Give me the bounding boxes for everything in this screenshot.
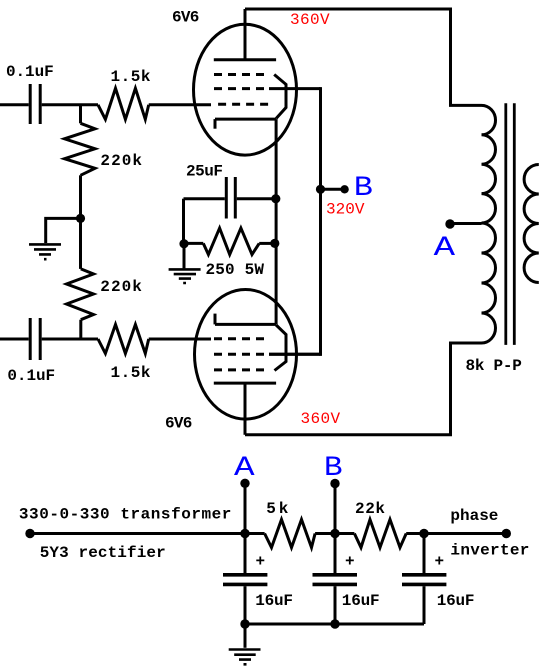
svg-text:phase: phase [450, 507, 498, 525]
V2 cathode [215, 314, 276, 325]
resistor R6 5k [265, 520, 316, 548]
V2 beam plates (dashed row) [214, 368, 265, 371]
wire T1 center tap [450, 222, 482, 225]
V1 control grid (dashed row) [218, 103, 269, 106]
wire C3 left leg [182, 199, 185, 244]
wire supply bus [30, 532, 265, 535]
svg-text:1.5k: 1.5k [111, 364, 151, 382]
V2 screen wire [269, 353, 321, 356]
svg-text:1.5k: 1.5k [111, 68, 151, 86]
node B stub end [340, 185, 348, 193]
node cathode/C3 [271, 194, 280, 203]
capacitor C2 0.1uF [30, 318, 40, 360]
node R5 left [179, 239, 188, 248]
ground bottom [229, 624, 261, 664]
node A dot [240, 479, 249, 488]
node bottom bus/C5 [330, 619, 339, 628]
V1 cathode [215, 119, 276, 129]
resistor R2 220k [65, 105, 96, 219]
node left terminal [25, 529, 34, 538]
V2 screen grid (dashed row) [214, 353, 265, 356]
wire plate supply top rail [245, 9, 482, 105]
capacitor C6 16uF [402, 534, 446, 625]
svg-text:+: + [435, 553, 445, 571]
transformer T1 primary winding [482, 105, 496, 343]
wire R4 to V2 grid [149, 338, 211, 341]
node B dot [330, 479, 339, 488]
transformer T1 secondary winding [524, 165, 539, 283]
V1 beam-to-cathode bend [274, 75, 286, 119]
transformer T1 core [506, 103, 515, 345]
V2 control grid (dashed row) [214, 337, 265, 340]
svg-text:0.1uF: 0.1uF [6, 63, 54, 81]
capacitor C4 16uF [223, 534, 267, 625]
wire 5k to B [315, 532, 354, 535]
svg-text:250 5W: 250 5W [206, 261, 265, 279]
resistor R4 1.5k [98, 325, 149, 354]
node bus/C6 [419, 529, 428, 538]
svg-text:8k P-P: 8k P-P [466, 357, 522, 375]
svg-text:16uF: 16uF [342, 592, 380, 610]
V1 screen grid (dashed row) [214, 87, 265, 90]
svg-text:220k: 220k [100, 152, 142, 170]
svg-text:A: A [434, 233, 456, 264]
wire C1 to R1 [42, 103, 98, 106]
node cathode/R5 [270, 239, 279, 248]
wire A lead [244, 483, 247, 533]
svg-text:330-0-330 transformer: 330-0-330 transformer [19, 505, 232, 523]
svg-text:5Y3 rectifier: 5Y3 rectifier [40, 544, 166, 562]
wire C2 to R4 [42, 338, 98, 341]
wire bottom rail [245, 343, 482, 435]
svg-text:0.1uF: 0.1uF [7, 367, 55, 385]
V2 plate [214, 383, 276, 435]
wire B stub [321, 188, 345, 191]
capacitor C5 16uF [313, 534, 358, 625]
resistor R7 22k [354, 520, 406, 548]
svg-text:16uF: 16uF [437, 592, 475, 610]
wire 22k to C6 [406, 532, 506, 535]
svg-text:16uF: 16uF [255, 592, 293, 610]
svg-text:6V6: 6V6 [165, 414, 192, 432]
svg-text:+: + [345, 553, 355, 571]
resistor R5 250 5W [184, 228, 275, 254]
svg-text:inverter: inverter [450, 542, 529, 560]
transistor V2 6V6 tube envelope [195, 290, 297, 420]
V1 beam plates (dashed row) [214, 73, 265, 76]
node phase inverter terminal [502, 529, 511, 538]
wire cathode bus [275, 119, 278, 324]
wire R1 to V1 grid [149, 103, 211, 106]
svg-text:320V: 320V [326, 201, 365, 219]
ground left [29, 244, 61, 259]
svg-text:+: + [256, 553, 266, 571]
svg-text:360V: 360V [290, 11, 330, 29]
capacitor C1 0.1uF [30, 84, 40, 124]
resistor R1 1.5k [98, 88, 149, 119]
svg-text:25uF: 25uF [186, 163, 223, 181]
V2 beam-to-cathode bend [275, 325, 287, 371]
svg-text:B: B [354, 173, 373, 204]
node A tap [445, 219, 454, 228]
wire junction to ground [46, 218, 81, 243]
op-amp V1 6V6 tube envelope [194, 24, 297, 155]
node bus/A [240, 529, 249, 538]
svg-text:220k: 220k [100, 278, 142, 296]
resistor R3 220k [67, 218, 94, 339]
ground middle [169, 244, 201, 283]
wire B lead [334, 484, 337, 534]
svg-text:6V6: 6V6 [172, 8, 199, 26]
node B tap [316, 185, 325, 194]
wire B bus [269, 87, 322, 356]
svg-text:360V: 360V [301, 410, 341, 428]
node bus/B [330, 529, 339, 538]
capacitor C3 25uF [184, 177, 275, 219]
wire bottom bus [245, 623, 424, 626]
node bottom bus/C4 [240, 619, 249, 628]
V1 plate [214, 9, 276, 60]
wire input top [0, 103, 29, 106]
V1 screen wire [269, 87, 321, 90]
svg-text:22k: 22k [355, 500, 385, 518]
wire input bottom [0, 338, 29, 341]
node junction R2/R3 [76, 214, 85, 223]
